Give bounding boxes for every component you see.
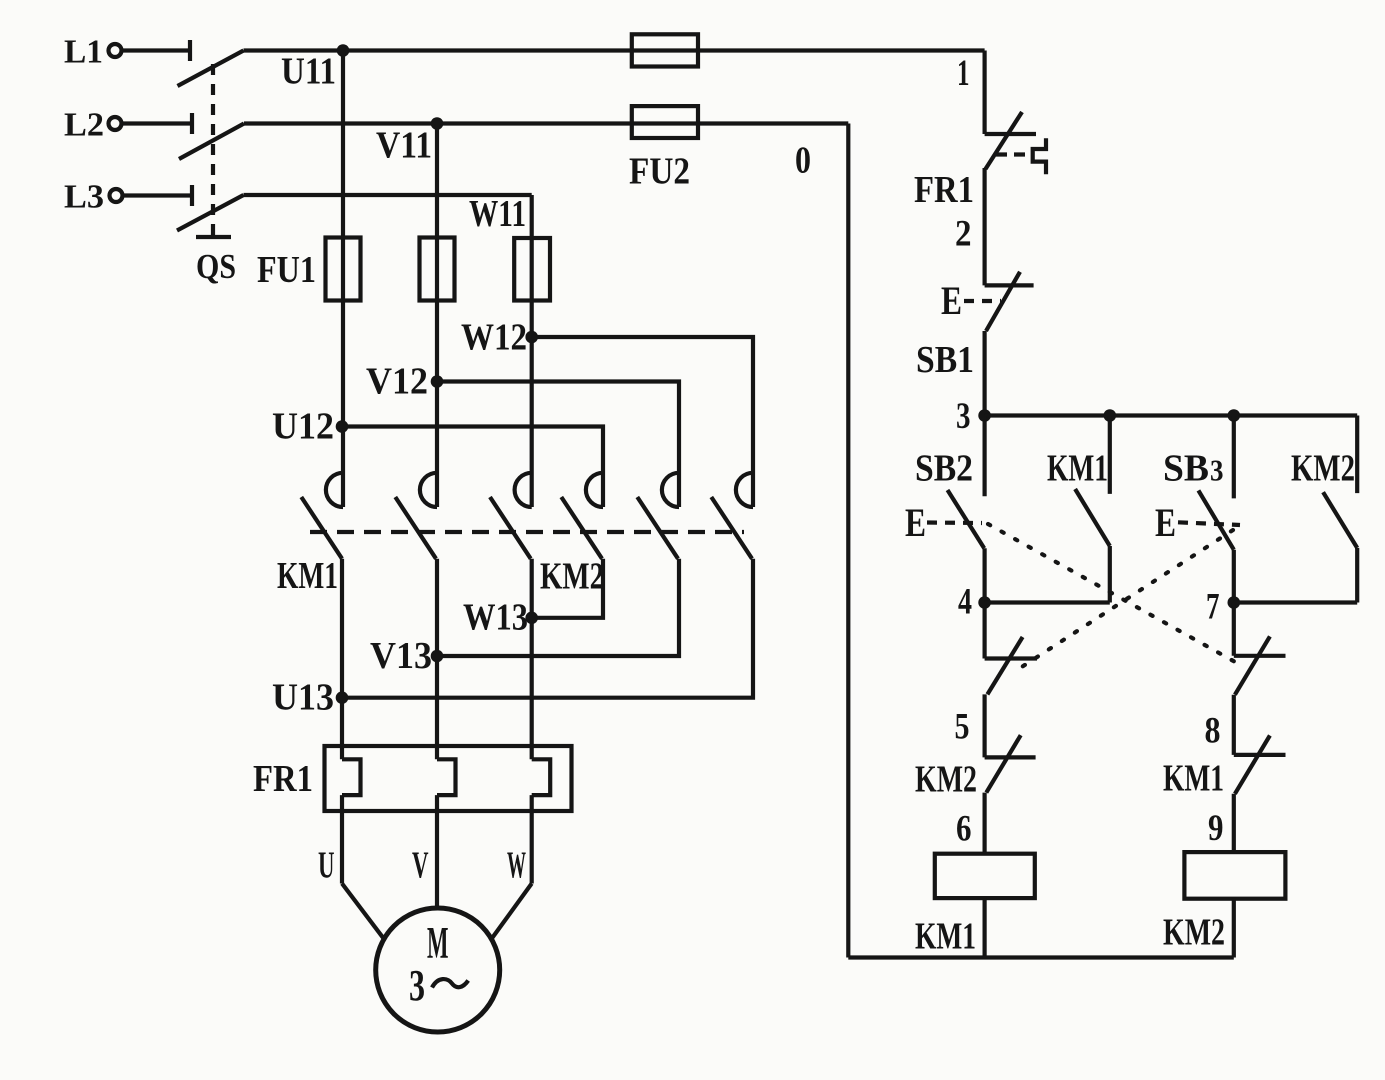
switch QS pole 3 blade (177, 195, 244, 231)
contactor KM1 main contact U (arc) (326, 473, 343, 507)
svg-text:KM1: KM1 (1163, 758, 1224, 800)
svg-text:W12: W12 (461, 317, 527, 359)
svg-text:W11: W11 (469, 193, 526, 235)
pushbutton SB2 NC interlock fixed bar (1234, 654, 1286, 658)
switch QS linkage (dashed) (196, 64, 231, 237)
contactor KM2 NC interlock fixed bar (985, 755, 1036, 759)
wire neutral line 0 (846, 124, 850, 958)
wire 6 (982, 793, 986, 854)
FR1 heater element U (342, 759, 361, 795)
svg-text:W: W (507, 845, 526, 887)
svg-text:SB1: SB1 (916, 339, 974, 381)
wire 5 (982, 694, 986, 757)
wire node 4 down (982, 603, 986, 659)
fuse FU1 pole W (514, 238, 550, 301)
contactor KM1 NC interlock fixed bar (1234, 753, 1286, 757)
thermal relay FR1 NC contact fixed bar (985, 132, 1036, 136)
contactor KM2 main contact b (arc) (662, 473, 679, 507)
wire L1 feed (244, 48, 985, 52)
fuse FU2 upper (632, 34, 698, 66)
node V13 (431, 650, 444, 663)
wire U phase lower vertical (340, 559, 344, 760)
node U11 (337, 44, 350, 57)
wire W phase vertical (530, 195, 534, 507)
switch QS pole 3 fixed contact (190, 185, 194, 206)
svg-text:KM2: KM2 (915, 759, 977, 801)
svg-text:V: V (412, 845, 429, 887)
contactor KM2 main contact c (arc) (736, 473, 753, 507)
svg-text:W13: W13 (463, 597, 528, 639)
wire KM2 contact c to U13 (342, 559, 753, 698)
svg-text:5: 5 (955, 706, 970, 747)
terminal L2 (109, 117, 122, 130)
pushbutton SB1 NC fixed bar (985, 283, 1034, 287)
svg-text:L3: L3 (64, 179, 104, 216)
FR1 heater element W (532, 759, 551, 795)
fuse FU1 pole U (326, 238, 361, 301)
fuse FU1 pole V (420, 238, 455, 301)
svg-text:1: 1 (957, 52, 970, 93)
linkage KM1/KM2 main contacts (dashed) (310, 530, 744, 534)
contactor KM2 main contact a blade (561, 497, 602, 559)
svg-text:FU1: FU1 (257, 249, 316, 291)
svg-text:SB: SB (1163, 448, 1209, 490)
switch QS pole 2 fixed contact (190, 113, 194, 134)
contactor KM1 main contact W blade (490, 497, 531, 559)
svg-text:V13: V13 (370, 635, 432, 677)
SB3 actuator link (dashed) (1178, 522, 1240, 525)
svg-text:M: M (427, 918, 449, 968)
svg-text:3: 3 (956, 395, 971, 436)
contactor KM1 main contact V blade (395, 497, 436, 559)
svg-text:U11: U11 (281, 51, 336, 93)
svg-text:6: 6 (956, 808, 972, 849)
label 3~ (409, 961, 468, 1010)
svg-text:E: E (905, 500, 926, 545)
svg-text:KM2: KM2 (540, 556, 604, 598)
pushbutton SB1 NC blade (986, 272, 1020, 331)
motor M 3-phase (376, 908, 500, 1032)
wire KM2 coil to bus (1232, 899, 1236, 958)
node 7 (1228, 596, 1241, 609)
svg-text:7: 7 (1206, 586, 1220, 627)
pushbutton SB2 NC interlock blade (1235, 636, 1270, 694)
thermal relay FR1 NC contact blade (986, 112, 1023, 169)
wire KM1 aux upper (1108, 416, 1112, 494)
FR1 heater element V (437, 759, 456, 795)
wire node 7 bus (1234, 600, 1357, 604)
svg-text:FR1: FR1 (914, 169, 974, 211)
wire KM1 aux lower (1108, 546, 1112, 603)
wire V phase vertical (435, 124, 439, 508)
svg-text:0: 0 (795, 140, 811, 182)
wire U phase vertical (341, 51, 345, 508)
svg-text:8: 8 (1205, 710, 1221, 751)
wire KM1 coil to bus (982, 898, 986, 957)
svg-text:4: 4 (958, 581, 972, 622)
svg-text:3: 3 (1210, 453, 1224, 488)
fuse FU2 lower (632, 106, 698, 138)
wire W phase lower vertical (530, 559, 534, 760)
svg-text:2: 2 (955, 213, 972, 254)
node W13 (525, 612, 538, 625)
contactor KM2 main contact b blade (637, 497, 678, 559)
contactor KM2 main contact c blade (711, 497, 752, 559)
svg-text:E: E (1155, 500, 1176, 545)
terminal L3 (110, 189, 123, 202)
wire control bus from node 3 (985, 413, 1358, 417)
svg-text:KM2: KM2 (1291, 448, 1355, 490)
contactor KM2 main contact a (arc) (586, 473, 603, 507)
wire L2 feed (244, 121, 848, 125)
wire SB2 upper (982, 416, 986, 497)
thermal relay FR1 actuator link (dashed) (996, 152, 1032, 156)
thermal overload FR1 heater box (325, 746, 572, 811)
SB1 actuator link (dashed) (964, 299, 1001, 303)
wire KM2 aux lower (1355, 548, 1359, 603)
contactor KM1 aux NO blade (1075, 489, 1110, 546)
label SB3 (1163, 448, 1224, 490)
wire node 4 bus (985, 600, 1110, 604)
svg-text:V11: V11 (376, 125, 432, 167)
coil KM1 (935, 854, 1035, 898)
thermal relay FR1 trip symbol (1033, 138, 1046, 174)
node SB3 branch junction (1228, 409, 1241, 422)
wire V phase lower vertical (435, 559, 439, 760)
node KM1 branch junction (1104, 409, 1117, 422)
wire SB3 lower (1232, 550, 1236, 603)
svg-text:L2: L2 (64, 107, 104, 144)
svg-text:L1: L1 (64, 34, 103, 71)
wire SB3 upper (1232, 416, 1236, 499)
wire KM2 aux upper (1355, 416, 1359, 494)
switch QS pole 1 fixed contact (188, 40, 192, 61)
node W12 (525, 331, 538, 344)
contactor KM1 NC interlock blade (1235, 736, 1270, 794)
svg-text:U12: U12 (272, 406, 334, 448)
node V11 (431, 117, 444, 130)
wire control phase drop (node 1) (982, 51, 986, 135)
svg-text:QS: QS (196, 247, 236, 286)
svg-text:E: E (941, 278, 962, 323)
wire motor lead W (491, 884, 531, 940)
contactor KM2 aux NO blade (1323, 492, 1357, 548)
contactor KM1 main contact U blade (301, 497, 342, 559)
wire motor lead U (342, 884, 384, 940)
wire L3 feed (244, 193, 532, 197)
terminal L1 (109, 44, 122, 57)
wire KM2 contact b to V13 (437, 559, 679, 656)
svg-text:KM1: KM1 (277, 555, 338, 597)
svg-text:3: 3 (409, 961, 425, 1010)
wire KM2 contact a to W13 (532, 559, 603, 618)
pushbutton SB3 NO blade (1198, 490, 1233, 549)
wire 2 (982, 168, 986, 285)
pushbutton SB2 NO blade (948, 490, 985, 548)
switch QS pole 1 blade (178, 51, 244, 87)
node 3 (978, 409, 991, 422)
node U12 (336, 420, 349, 433)
wire node 7 down (1232, 603, 1236, 656)
svg-text:9: 9 (1208, 807, 1224, 848)
wire bottom bus (line 0) (848, 955, 1234, 959)
pushbutton SB3 NC interlock fixed bar (985, 656, 1037, 660)
svg-text:V12: V12 (366, 361, 428, 403)
svg-text:FU2: FU2 (629, 151, 690, 193)
contactor KM2 NC interlock blade (986, 735, 1020, 792)
node 4 (978, 596, 991, 609)
svg-text:KM1: KM1 (1047, 448, 1108, 490)
node V12 (431, 375, 444, 388)
wire (123, 193, 193, 197)
svg-text:KM1: KM1 (915, 916, 976, 958)
wire (122, 48, 191, 52)
coil KM2 (1184, 852, 1285, 899)
contactor KM1 main contact V (arc) (420, 473, 437, 507)
pushbutton SB3 NC interlock blade (987, 637, 1022, 694)
wire 9 (1232, 794, 1236, 852)
mechanical interlock SB3 (dotted) (1014, 530, 1233, 672)
node U13 (336, 691, 349, 704)
wire 8 (1232, 695, 1236, 755)
contactor KM1 main contact W (arc) (515, 473, 532, 507)
svg-text:U: U (318, 845, 335, 887)
wire SB2 lower (982, 548, 986, 602)
svg-text:KM2: KM2 (1163, 912, 1225, 954)
svg-text:FR1: FR1 (253, 758, 313, 800)
switch QS pole 2 blade (179, 124, 244, 160)
svg-text:U13: U13 (272, 677, 334, 719)
wire U12 to KM2 contact a (342, 427, 603, 508)
wire W12 to KM2 contact c (532, 337, 753, 507)
mechanical interlock SB2 (dotted) (988, 524, 1237, 663)
wire SB1 to node 3 (982, 331, 986, 416)
wire V12 to KM2 contact b (437, 382, 679, 508)
svg-text:SB2: SB2 (915, 448, 973, 490)
SB2 actuator link (dashed) (927, 520, 982, 525)
wire (122, 121, 193, 125)
